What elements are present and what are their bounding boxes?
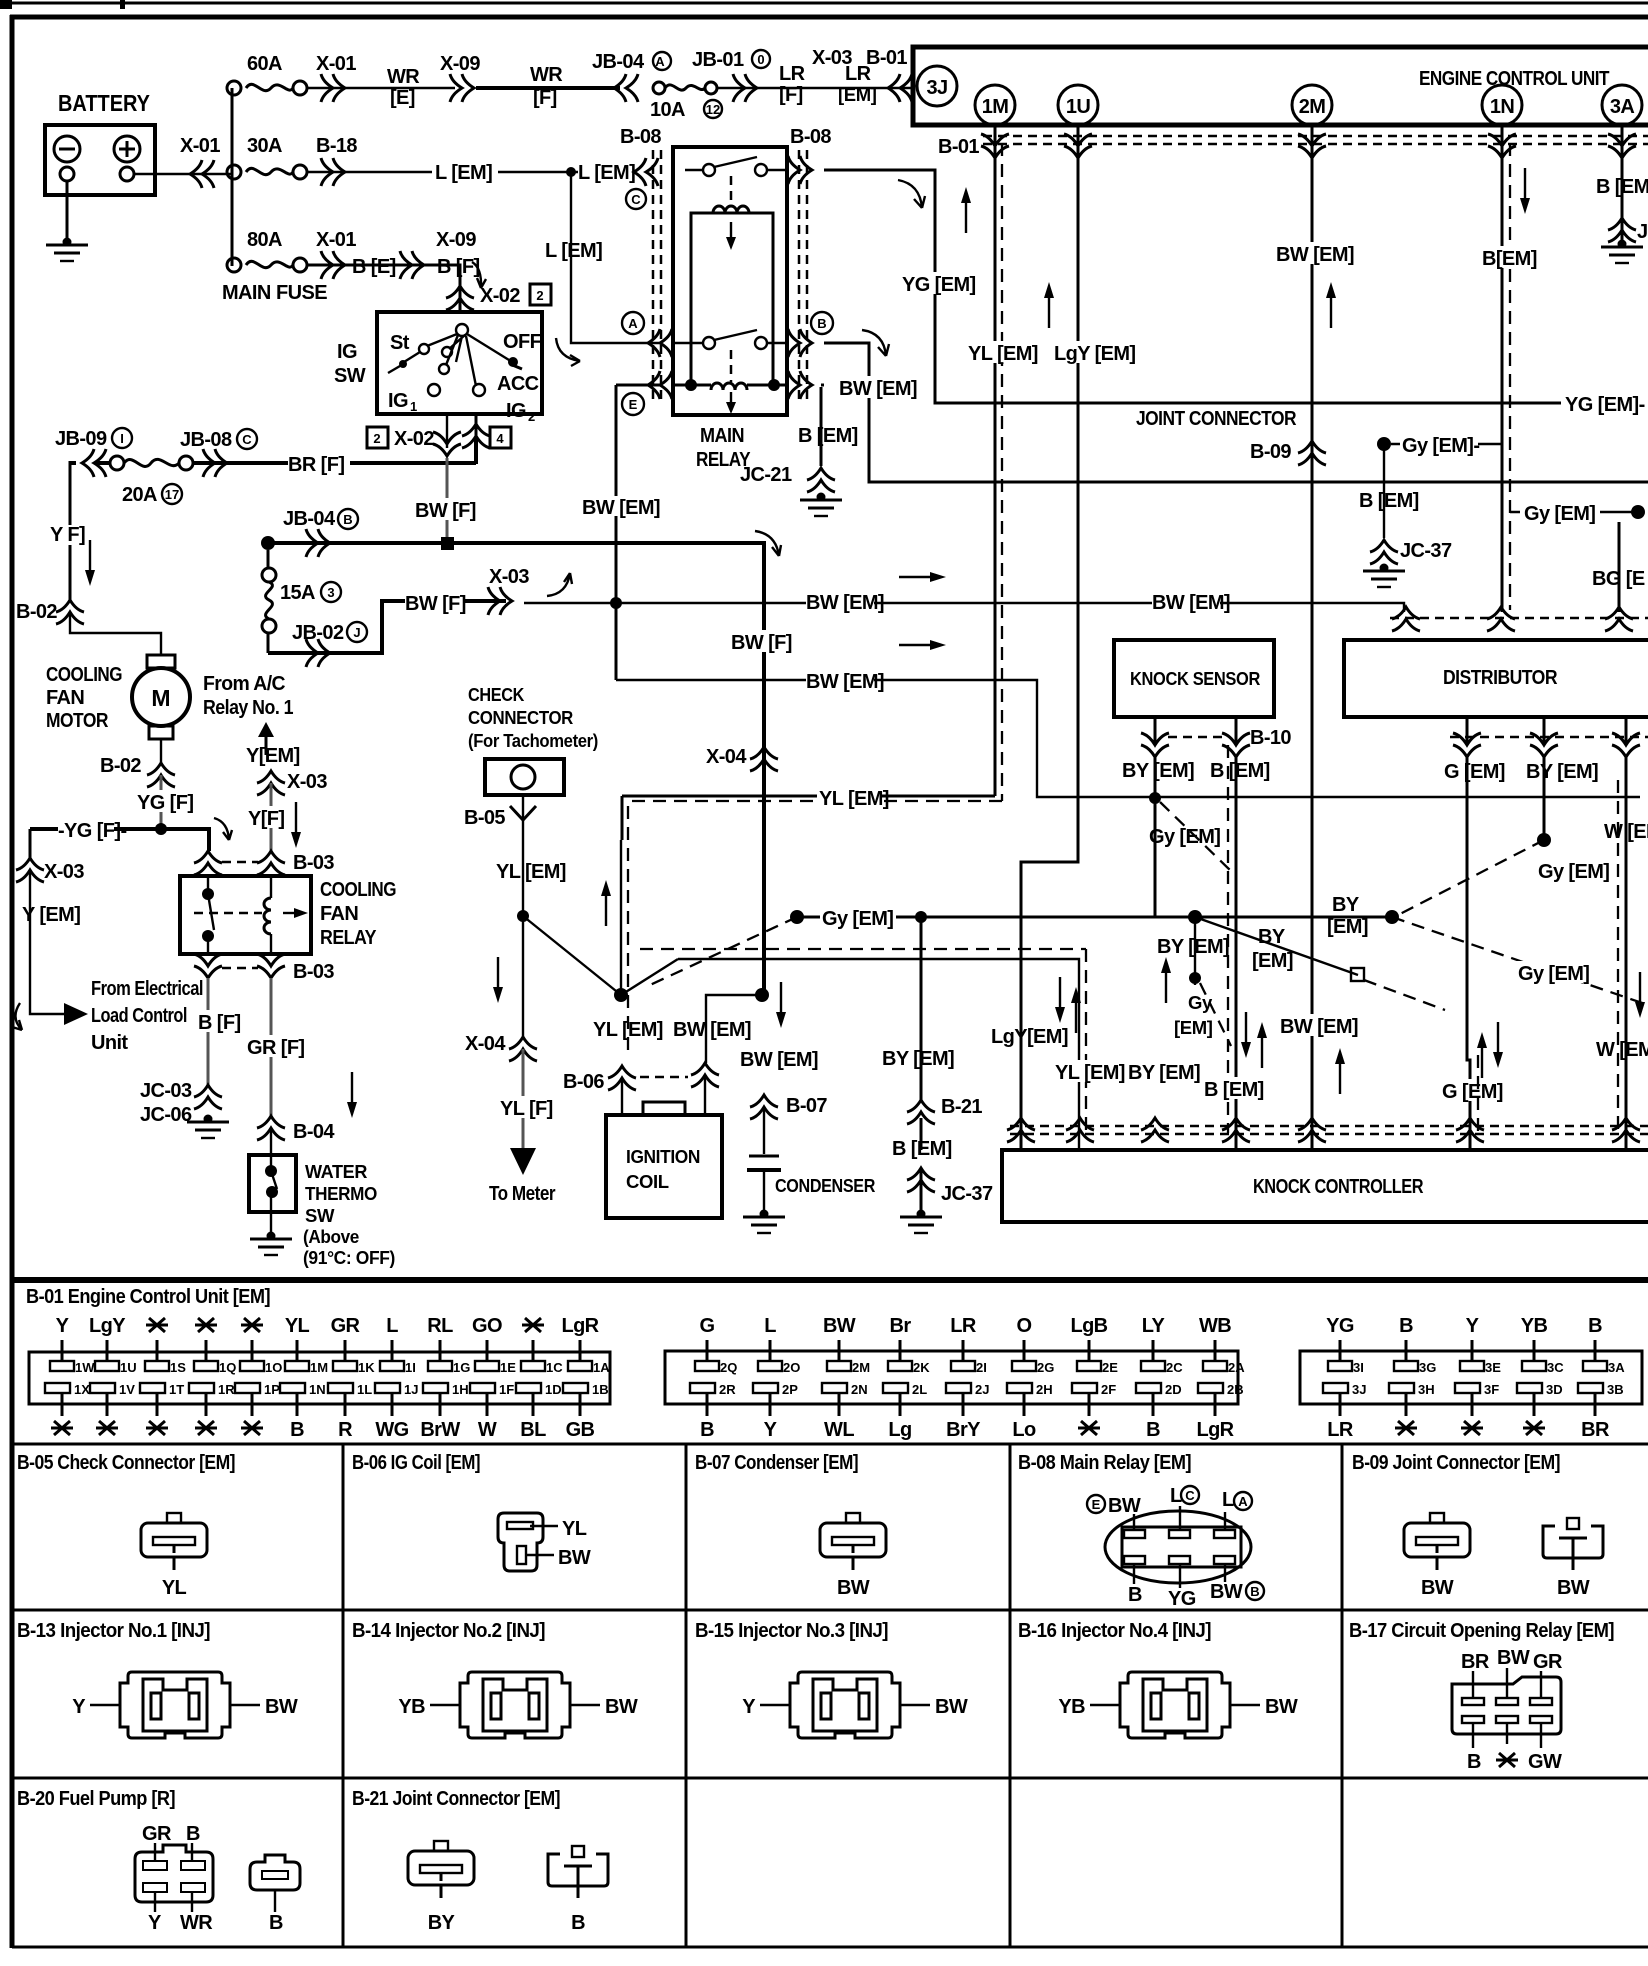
B-01 connector dashed bus — [983, 136, 1648, 144]
svg-text:GW: GW — [1528, 1751, 1562, 1773]
svg-text:Gy [EM]: Gy [EM] — [1149, 826, 1220, 848]
label B EM 1N — [1482, 246, 1537, 270]
pin 1R — [189, 1382, 235, 1397]
svg-text:BR: BR — [1461, 1651, 1490, 1673]
dashed G companion — [1477, 1055, 1479, 1133]
svg-text:YG [EM]: YG [EM] — [902, 274, 976, 296]
svg-text:YL: YL — [562, 1518, 587, 1540]
svg-text:YL: YL — [162, 1577, 187, 1599]
svg-text:3D: 3D — [1546, 1382, 1563, 1397]
svg-text:2O: 2O — [783, 1360, 800, 1375]
label JB-04 A — [592, 51, 671, 73]
svg-text:B-20 Fuel Pump [R]: B-20 Fuel Pump [R] — [17, 1788, 175, 1810]
dashes B-06 — [640, 1076, 688, 1079]
connector icon B-09 joint connector a — [1404, 1513, 1470, 1570]
svg-text:W: W — [478, 1419, 497, 1441]
pin 1O — [240, 1360, 282, 1375]
wire B-13 injector 1 right — [230, 1704, 260, 1706]
schematic outer border left — [10, 15, 15, 1948]
svg-text:JOINT CONNECTOR: JOINT CONNECTOR — [1136, 408, 1297, 430]
label Gy EM bus — [820, 906, 896, 930]
wire pin tick bottom conn28 — [1214, 1393, 1217, 1416]
pin symbol unused bottom conn11 — [96, 1421, 118, 1435]
svg-text:ENGINE CONTROL UNIT: ENGINE CONTROL UNIT — [1419, 68, 1609, 90]
dashed YL companion horizontal — [628, 806, 1086, 1133]
svg-text:B-08: B-08 — [620, 126, 661, 148]
node Gy stub1 — [1377, 437, 1391, 451]
label BW EM condenser — [736, 1047, 818, 1071]
svg-text:1S: 1S — [170, 1360, 186, 1375]
pin 2D — [1136, 1382, 1182, 1397]
svg-text:W [EM: W [EM — [1596, 1039, 1648, 1061]
wire B-13 injector 1 left — [90, 1704, 120, 1706]
svg-text:IGNITION: IGNITION — [626, 1146, 700, 1167]
svg-text:1U: 1U — [1066, 96, 1091, 118]
wire BW EM thin y603 — [524, 603, 1404, 612]
pin symbol unused bottom conn26 — [1078, 1421, 1100, 1435]
pin 3F — [1455, 1382, 1499, 1397]
svg-text:[EM]: [EM] — [1174, 1017, 1213, 1038]
connector dist out1 — [1453, 733, 1481, 757]
wire pin tick top conn25 — [1023, 1340, 1026, 1362]
svg-text:YG: YG — [1168, 1588, 1196, 1610]
pin 3E — [1460, 1360, 1501, 1375]
label BW EM y600 a — [806, 590, 884, 614]
distributor box — [1344, 640, 1648, 717]
pin 3H — [1389, 1382, 1435, 1397]
wire WR [E] — [307, 87, 455, 89]
wire pin tick bottom conn19 — [486, 1393, 489, 1416]
table row line below B-13 row — [12, 1777, 1648, 1780]
svg-text:GO: GO — [472, 1315, 502, 1337]
flow arrow yl meter — [493, 957, 503, 1003]
svg-text:G [EM]: G [EM] — [1442, 1081, 1503, 1103]
wire L [EM] row — [307, 171, 630, 173]
svg-text:LR: LR — [845, 63, 872, 85]
wire pin tick bottom conn31 — [1405, 1393, 1408, 1416]
wire pin tick bottom conn14 — [251, 1393, 254, 1416]
svg-text:FAN: FAN — [320, 903, 358, 925]
condenser C — [747, 1107, 781, 1210]
svg-text:BrW: BrW — [420, 1419, 460, 1441]
svg-text:2M: 2M — [1299, 96, 1326, 118]
label BW EM relay B — [839, 376, 917, 400]
wire pin tick top conn20 — [706, 1340, 709, 1362]
svg-text:KNOCK SENSOR: KNOCK SENSOR — [1130, 668, 1260, 689]
svg-text:LgR: LgR — [1196, 1419, 1234, 1441]
svg-text:JB-01: JB-01 — [692, 49, 744, 71]
label MAIN RELAY — [696, 425, 751, 471]
connector JC-37 right — [1370, 540, 1452, 564]
svg-text:LR: LR — [1327, 1419, 1354, 1441]
wire YG EM from relay top — [824, 170, 1561, 403]
svg-text:2D: 2D — [1165, 1382, 1182, 1397]
svg-text:2N: 2N — [851, 1382, 868, 1397]
wire pin tick top conn10 — [61, 1340, 64, 1362]
distributor pins dashes — [1450, 736, 1648, 739]
main fuse vertical bus — [231, 88, 234, 266]
dashed Gy diag from BY — [1398, 840, 1544, 915]
pin symbol unused bottom conn14 — [241, 1421, 263, 1435]
svg-text:BW [EM]: BW [EM] — [1152, 592, 1230, 614]
label BW EM y680 — [806, 669, 884, 693]
cooling fan relay box — [180, 876, 311, 954]
svg-text:Y [EM]: Y [EM] — [22, 904, 80, 926]
wire pin tick bottom conn10 — [61, 1393, 64, 1416]
label COOLING FAN MOTOR — [46, 664, 122, 732]
wire BG to distributor — [1618, 522, 1621, 612]
svg-text:O: O — [1017, 1315, 1032, 1337]
svg-text:YG [EM]-: YG [EM]- — [1565, 394, 1645, 416]
pin 2J — [946, 1382, 989, 1397]
connector B-03 relay right in — [257, 851, 334, 875]
pin symbol unused bottom conn10 — [51, 1421, 73, 1435]
svg-text:B-17 Circuit Opening Relay [E: B-17 Circuit Opening Relay [EM] — [1349, 1620, 1614, 1642]
ground BY branch — [900, 1210, 942, 1234]
YG F bus — [30, 829, 209, 851]
ground battery — [46, 238, 88, 262]
pin 1H — [423, 1382, 469, 1397]
wire b06 bw — [526, 1554, 554, 1556]
svg-text:R: R — [338, 1419, 353, 1441]
wire check connector down — [522, 795, 524, 916]
wire L EM vertical — [571, 172, 660, 343]
fuse 30A — [227, 165, 307, 179]
labels GR B b20 — [142, 1823, 200, 1845]
svg-text:Y: Y — [742, 1696, 756, 1718]
svg-text:X-01: X-01 — [316, 53, 356, 75]
label 10A 12 — [650, 99, 722, 121]
wire pin tick bottom conn32 — [1471, 1393, 1474, 1416]
connector E left — [622, 371, 672, 415]
svg-text:2A: 2A — [1228, 1360, 1245, 1375]
ignition switch contacts — [388, 324, 522, 396]
label L A b08 — [1222, 1489, 1252, 1530]
connector X-03 bwf — [488, 587, 512, 615]
pin 1A — [568, 1360, 610, 1375]
connector icon B-05 check connector — [141, 1513, 207, 1570]
arrow to electrical load — [64, 1003, 88, 1025]
wire BY condenser branch — [920, 917, 923, 1210]
wires b17 top — [1473, 1668, 1541, 1698]
connector icon B-09 joint connector b — [1543, 1518, 1603, 1570]
node BW condenser junction — [755, 988, 769, 1002]
wire B ks down — [1235, 757, 1238, 1150]
svg-text:St: St — [390, 332, 410, 354]
connector icon B-07 condenser — [820, 1513, 886, 1570]
svg-text:A: A — [655, 54, 665, 69]
svg-text:1: 1 — [410, 399, 417, 414]
node bw junction x616 — [610, 597, 622, 609]
connector kc1 — [1007, 1118, 1035, 1142]
svg-text:Y[F]: Y[F] — [248, 808, 284, 830]
label G EM dist — [1442, 759, 1505, 783]
svg-text:1G: 1G — [453, 1360, 470, 1375]
wire pin tick top conn31 — [1405, 1340, 1408, 1362]
svg-text:BW [EM]: BW [EM] — [839, 378, 917, 400]
wire pin tick top conn26 — [1088, 1340, 1091, 1362]
pin 3G — [1394, 1360, 1436, 1375]
schematic / connector-table separator — [10, 1277, 1648, 1283]
wire pin tick top conn21 — [769, 1340, 772, 1362]
svg-text:FAN: FAN — [46, 687, 84, 709]
svg-text:B-21 Joint Connector [EM]: B-21 Joint Connector [EM] — [352, 1788, 560, 1810]
label Gy EM small — [1174, 992, 1213, 1038]
connector X-04 yl — [465, 1033, 537, 1061]
dashed gy3 diag — [1392, 917, 1648, 1005]
wire pin tick top conn32 — [1471, 1340, 1474, 1362]
node BY branch — [915, 911, 927, 923]
svg-text:BW: BW — [265, 1696, 298, 1718]
label BW F vertical — [731, 630, 792, 654]
svg-text:B: B — [290, 1419, 304, 1441]
label BY EM right — [1327, 894, 1368, 938]
svg-text:JC-21: JC-21 — [740, 464, 792, 486]
pin 2B — [1198, 1382, 1244, 1397]
svg-text:1W: 1W — [75, 1360, 95, 1375]
svg-text:B: B — [1250, 1584, 1259, 1599]
pin 1I — [380, 1360, 416, 1375]
connector B-04 — [257, 1116, 335, 1143]
arrow To Meter — [510, 1148, 536, 1175]
labels Y WR b20 — [148, 1912, 213, 1934]
svg-text:B: B — [269, 1912, 283, 1934]
svg-text:X-03: X-03 — [44, 861, 84, 883]
svg-text:2K: 2K — [913, 1360, 930, 1375]
svg-text:1M: 1M — [310, 1360, 328, 1375]
ground JC-37 right — [1363, 564, 1405, 588]
svg-text:B-18: B-18 — [316, 135, 357, 157]
svg-text:2P: 2P — [782, 1382, 798, 1397]
flow arrow yl up — [601, 880, 611, 926]
wire Y F left drop — [69, 461, 72, 600]
knock sensor pin dashes — [1168, 736, 1222, 739]
svg-text:1C: 1C — [546, 1360, 563, 1375]
flow hook relay B — [862, 330, 889, 356]
svg-text:LY: LY — [1142, 1315, 1166, 1337]
connector B-02 left — [16, 600, 84, 624]
connector square on diag — [1351, 968, 1364, 981]
connector LR to ECU — [838, 63, 912, 105]
svg-text:3H: 3H — [1418, 1382, 1435, 1397]
svg-text:Y: Y — [56, 1315, 70, 1337]
connector block conn3 — [1300, 1351, 1642, 1404]
connector kc6 — [1456, 1118, 1484, 1142]
svg-text:[EM]: [EM] — [1252, 950, 1293, 972]
svg-text:2Q: 2Q — [720, 1360, 737, 1375]
svg-text:YL: YL — [285, 1315, 310, 1337]
svg-text:LgY: LgY — [89, 1315, 126, 1337]
connector B-05 arrow — [464, 806, 536, 829]
pin 2P — [753, 1382, 798, 1397]
pin 1W — [50, 1360, 95, 1375]
svg-text:BW [F]: BW [F] — [405, 593, 466, 615]
table row line below B-01 row — [12, 1443, 1648, 1446]
label 20A 17 — [122, 484, 182, 506]
svg-text:B-01 Engine Control Unit [EM]: B-01 Engine Control Unit [EM] — [26, 1286, 270, 1308]
wire B [E] B [F] — [307, 265, 460, 312]
svg-text:COOLING: COOLING — [320, 879, 396, 901]
ground condenser — [743, 1210, 785, 1234]
svg-text:YL [EM]: YL [EM] — [819, 788, 889, 810]
table column divider 1 — [342, 1444, 345, 1947]
svg-text:2: 2 — [373, 431, 380, 446]
node BW F junction — [441, 537, 454, 550]
wire pin tick bottom conn33 — [1533, 1393, 1536, 1416]
connector icon B-08 main relay oval — [1105, 1511, 1251, 1583]
label CHECK CONNECTOR — [468, 684, 598, 751]
table column divider 2 — [685, 1444, 688, 1947]
svg-text:KNOCK CONTROLLER: KNOCK CONTROLLER — [1253, 1176, 1424, 1198]
svg-text:MAIN: MAIN — [222, 282, 271, 304]
svg-text:JB-04: JB-04 — [592, 51, 645, 73]
svg-text:15A: 15A — [280, 582, 315, 604]
label COOLING FAN RELAY — [320, 879, 396, 949]
wire pin tick top conn14 — [251, 1340, 254, 1362]
pin symbol unused bottom conn12 — [146, 1421, 168, 1435]
label YL EM x995 — [966, 341, 1038, 365]
svg-text:E: E — [629, 397, 638, 412]
svg-text:GR [F]: GR [F] — [247, 1037, 305, 1059]
svg-text:B [EM]: B [EM] — [1204, 1079, 1264, 1101]
svg-text:JC-06: JC-06 — [140, 1104, 192, 1126]
connector B-06 yl — [608, 1066, 636, 1090]
svg-text:3A: 3A — [1608, 1360, 1625, 1375]
connector X-02 2 bottom — [433, 432, 461, 456]
wire pin tick top conn22 — [838, 1340, 841, 1362]
svg-text:1J: 1J — [404, 1382, 418, 1397]
connector X-02 2 top — [446, 286, 474, 310]
ground 3A — [1601, 240, 1643, 264]
table column divider 4 — [1341, 1444, 1344, 1947]
svg-text:Unit: Unit — [91, 1032, 128, 1054]
ECU pin 3A — [1602, 85, 1642, 125]
svg-text:BW [EM]: BW [EM] — [582, 497, 660, 519]
wire pin tick top conn12 — [156, 1340, 159, 1362]
ECU bottom edge redraw — [913, 123, 1648, 128]
ground JC-03 — [187, 1115, 229, 1139]
battery B+ box — [45, 125, 155, 195]
svg-text:IG: IG — [337, 341, 357, 363]
knock sensor box — [1114, 640, 1274, 717]
svg-text:B-21: B-21 — [941, 1096, 982, 1118]
svg-text:1T: 1T — [169, 1382, 184, 1397]
svg-text:4: 4 — [496, 431, 504, 446]
svg-text:3B: 3B — [1607, 1382, 1624, 1397]
svg-text:ACC: ACC — [497, 373, 539, 395]
svg-text:1P: 1P — [264, 1382, 280, 1397]
label BW F pin2 — [415, 498, 476, 522]
label BW EM above bus — [582, 496, 660, 519]
pin symbol unused top conn13 — [195, 1318, 217, 1332]
svg-text:THERMO: THERMO — [305, 1183, 377, 1204]
connector B-08 top right out — [788, 156, 812, 184]
wire Y F ac — [270, 783, 273, 851]
wire pin tick bottom conn18 — [439, 1393, 442, 1416]
label JB-08 C — [180, 429, 257, 451]
wire YL solid to controller — [678, 959, 1079, 1150]
svg-text:MOTOR: MOTOR — [46, 710, 109, 732]
ECU box — [913, 47, 1648, 125]
flow arrow 1N down — [1520, 168, 1530, 214]
svg-text:Y: Y — [72, 1696, 86, 1718]
connector icon B-20 fuel pump — [135, 1845, 213, 1902]
svg-text:LgB: LgB — [1070, 1315, 1107, 1337]
wire B F gray — [207, 978, 210, 1085]
wires b20 bottom — [155, 1892, 192, 1912]
svg-text:GR: GR — [331, 1315, 361, 1337]
pin 1M — [285, 1360, 328, 1375]
wire Y EM left — [30, 870, 80, 1014]
svg-text:BW: BW — [1557, 1577, 1590, 1599]
svg-text:From A/C: From A/C — [203, 673, 285, 695]
connector X-02 4 bottom — [462, 424, 490, 448]
svg-text:Gy [EM]: Gy [EM] — [1524, 503, 1595, 525]
label C circle — [626, 189, 646, 209]
svg-text:JC-37: JC-37 — [941, 1183, 993, 1205]
wire pin tick bottom conn16 — [344, 1393, 347, 1416]
ignition coil box — [606, 1102, 722, 1218]
svg-text:BATTERY: BATTERY — [58, 90, 150, 116]
svg-text:B [EM]: B [EM] — [892, 1138, 952, 1160]
svg-text:IG: IG — [388, 390, 408, 412]
connector B-06 bw — [691, 1063, 719, 1087]
svg-text:GR: GR — [1533, 1651, 1563, 1673]
pin 1Q — [194, 1360, 236, 1375]
diag BY from gy2 — [1195, 917, 1358, 975]
node YL split — [517, 910, 529, 922]
flow hook bus corner — [755, 531, 781, 556]
fuse 80A — [227, 258, 307, 272]
svg-text:JB-04: JB-04 — [283, 508, 336, 530]
relay contact cf — [202, 876, 214, 954]
flow hook ign — [472, 262, 486, 288]
svg-text:BR [F]: BR [F] — [288, 454, 344, 476]
svg-text:X-04: X-04 — [465, 1033, 506, 1055]
wire B-15 injector 3 right — [900, 1704, 930, 1706]
node L junction — [566, 167, 576, 177]
svg-text:B-08 Main Relay [EM]: B-08 Main Relay [EM] — [1018, 1452, 1191, 1474]
svg-text:A: A — [1238, 1494, 1248, 1509]
svg-text:B-02: B-02 — [100, 755, 141, 777]
wire B EM jc37 right — [1383, 444, 1385, 538]
svg-text:X-02: X-02 — [480, 285, 520, 307]
svg-text:WB: WB — [1199, 1315, 1231, 1337]
wire pin tick top conn110 — [532, 1340, 535, 1362]
pin 1E — [475, 1360, 516, 1375]
svg-text:2M: 2M — [852, 1360, 870, 1375]
svg-text:B [F]: B [F] — [437, 256, 480, 278]
svg-text:WL: WL — [824, 1419, 854, 1441]
svg-text:WR: WR — [387, 66, 420, 88]
svg-text:I: I — [120, 431, 124, 446]
connector X-03 left — [16, 858, 84, 883]
connector X-01 row1 — [321, 74, 345, 102]
connector kc5 — [1298, 1118, 1326, 1142]
label Gy EM mid — [1536, 859, 1609, 883]
wire B 1N — [1501, 125, 1504, 612]
pin 2N — [822, 1382, 868, 1397]
svg-text:YL [EM]: YL [EM] — [968, 343, 1038, 365]
svg-text:BG [E: BG [E — [1592, 568, 1645, 590]
pin symbol unused top conn14 — [241, 1318, 263, 1332]
connector JB-04 B mid — [306, 529, 330, 557]
connector chevron 3A — [1608, 134, 1636, 158]
svg-text:BW [EM]: BW [EM] — [740, 1049, 818, 1071]
svg-text:SW: SW — [305, 1205, 335, 1226]
wire relay E drop x616 — [616, 385, 662, 680]
svg-text:YB: YB — [1058, 1696, 1085, 1718]
